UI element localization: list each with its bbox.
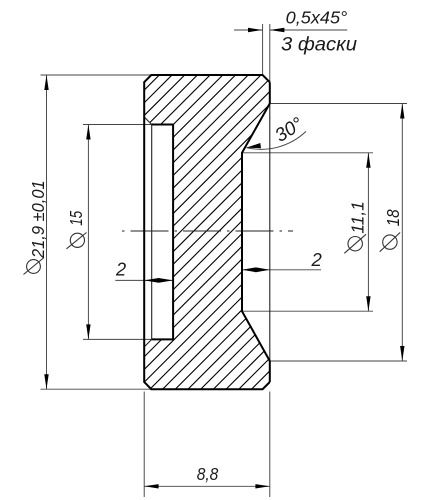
svg-text:15: 15 <box>66 211 86 226</box>
svg-text:3 фаски: 3 фаски <box>281 33 357 55</box>
svg-text:8,8: 8,8 <box>197 464 219 484</box>
svg-text:18: 18 <box>383 209 403 226</box>
svg-text:0,5x45°: 0,5x45° <box>286 8 348 28</box>
svg-text:11,1: 11,1 <box>348 201 368 234</box>
svg-text:2: 2 <box>115 259 126 279</box>
svg-text:2: 2 <box>311 249 323 270</box>
svg-text:21,9 ±0,01: 21,9 ±0,01 <box>28 180 48 259</box>
